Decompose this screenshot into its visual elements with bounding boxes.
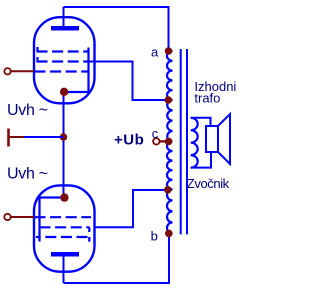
- tube V2 grid g2 (dashed): [40, 226, 90, 228]
- tube V1 envelope: [34, 17, 95, 103]
- junction: node b (primary bottom): [165, 230, 173, 238]
- wire: mid rail to ground terminal (blue part): [24, 136, 64, 138]
- wire: secondary bottom to speaker: [191, 151, 211, 168]
- wire: input 2 to V2 grid g1: [11, 216, 34, 218]
- transformer primary winding section t2-b: [167, 189, 172, 233]
- junction: V1 cathode node: [60, 88, 68, 96]
- tube V1 grid g3 (dashed): [37, 50, 90, 52]
- speaker LS1 horn: [218, 114, 230, 164]
- transformer primary winding section t1-c: [167, 100, 172, 141]
- tube V1 anode plate: [51, 26, 79, 31]
- junction: node a (primary top): [165, 47, 173, 55]
- transformer core line 2: [186, 49, 188, 234]
- transformer primary winding section c-t2: [167, 141, 173, 189]
- tube V1 grid support rod: [87, 48, 89, 93]
- wire: mid rail to ground terminal (dark red part): [9, 136, 24, 138]
- junction: primary tap 1: [165, 96, 173, 104]
- tube V1 grid g1 (dashed): [35, 70, 90, 72]
- transformer secondary winding: [191, 118, 198, 168]
- junction: cathode mid rail node: [60, 133, 68, 141]
- input terminal 1 (circle): [4, 68, 10, 74]
- junction: primary tap 2: [164, 186, 172, 194]
- tube V2 grid g1 (dashed): [35, 216, 92, 218]
- tube V2 grid support rod: [38, 198, 40, 242]
- transformer core line 1: [180, 49, 182, 234]
- wire: centre tap to +Ub terminal: [159, 140, 168, 142]
- tube V1 grid g3 tick: [36, 47, 38, 52]
- svg-text:Uvh ~: Uvh ~: [7, 102, 48, 119]
- tube V2 grid g2 tick: [88, 227, 90, 232]
- wire: V2 g2 tap to primary tap 2: [94, 190, 168, 227]
- tube V1 grid g2 tick: [36, 57, 38, 62]
- svg-text:c: c: [152, 126, 159, 141]
- svg-text:a: a: [151, 45, 159, 60]
- junction: node c (centre tap): [165, 138, 173, 146]
- +Ub terminal (circle): [153, 138, 159, 144]
- wire: V2 anode to node b (bottom rail): [64, 233, 170, 283]
- tube V2 anode lead wire: [63, 257, 65, 284]
- tube V1 cathode: [64, 91, 89, 93]
- ground terminal bar: [7, 129, 10, 147]
- wire: V1 g2 tap to primary tap 1: [89, 62, 169, 101]
- tube V2 anode plate: [51, 252, 79, 257]
- wire: V1 cathode down to mid rail: [63, 92, 65, 137]
- wire: V1 anode to node a (top rail): [64, 7, 169, 51]
- svg-text:Uvh ~: Uvh ~: [7, 166, 48, 183]
- tube V2 envelope: [34, 185, 95, 271]
- svg-text:+Ub: +Ub: [114, 131, 144, 148]
- svg-text:b: b: [151, 229, 158, 244]
- wire: secondary top to speaker: [191, 118, 211, 127]
- svg-text:Zvočnik: Zvočnik: [187, 176, 230, 191]
- tube V2 grid g3 tick: [88, 237, 90, 242]
- junction: V2 cathode node: [60, 193, 68, 201]
- tube V2 cathode: [40, 196, 64, 198]
- wire: mid rail down to V2 cathode: [63, 137, 65, 198]
- tube V1 anode lead wire: [63, 7, 65, 30]
- speaker LS1 body: [206, 126, 218, 152]
- tube V2 grid g3 (dashed): [36, 236, 90, 238]
- tube V1 grid g2 (dashed): [37, 60, 90, 62]
- transformer primary winding section a-t1: [167, 51, 173, 100]
- wire: input 1 to V1 grid g1: [11, 70, 34, 72]
- input terminal 2 (circle): [4, 214, 10, 220]
- svg-text:trafo: trafo: [194, 90, 220, 105]
